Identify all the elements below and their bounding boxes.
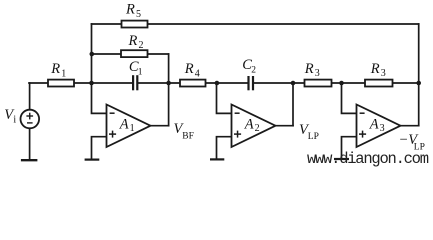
label R1 bbox=[50, 61, 66, 79]
svg-text:BF: BF bbox=[182, 132, 194, 142]
label A1 bbox=[119, 117, 135, 135]
node junction dots bbox=[89, 52, 421, 86]
svg-text:1: 1 bbox=[130, 123, 135, 134]
wire V_BF vertical (R2 right / A1 output node) bbox=[168, 54, 170, 126]
wire A2 inverting input branch bbox=[217, 83, 232, 113]
label C2 bbox=[242, 57, 256, 76]
svg-text:2: 2 bbox=[139, 40, 144, 51]
label R4 bbox=[184, 61, 200, 79]
wire main rail mid segment bbox=[138, 82, 247, 84]
label V_BF bbox=[174, 121, 194, 141]
svg-text:1: 1 bbox=[138, 68, 143, 78]
svg-text:1: 1 bbox=[61, 68, 66, 79]
node A3 inverting bbox=[339, 81, 344, 86]
resistor R4 bbox=[180, 80, 206, 87]
svg-text:3: 3 bbox=[381, 68, 386, 79]
wire A2 output bbox=[276, 125, 294, 127]
label V_LP bbox=[299, 122, 319, 142]
label R2 bbox=[128, 33, 144, 51]
wire right feedback vertical (A3 output node) bbox=[418, 24, 420, 126]
wire A2 noninverting input to ground bbox=[217, 137, 232, 159]
node R2 left junction bbox=[90, 52, 95, 57]
ground (A1) bbox=[85, 159, 100, 161]
wire A3 inverting input branch bbox=[342, 83, 357, 113]
svg-text:2: 2 bbox=[255, 123, 260, 134]
resistor R5 bbox=[122, 21, 148, 28]
svg-text:LP: LP bbox=[308, 132, 319, 142]
node A1 inverting (main rail) bbox=[89, 81, 94, 86]
svg-text:R: R bbox=[125, 2, 135, 18]
wire V_LP vertical (A2 output node) bbox=[292, 83, 294, 126]
op-amp A1 bbox=[107, 105, 151, 148]
node A2 inverting bbox=[215, 81, 220, 86]
voltage source Vi bbox=[21, 110, 40, 129]
node V_LP bbox=[291, 81, 296, 86]
svg-text:3: 3 bbox=[380, 123, 385, 134]
svg-text:R: R bbox=[184, 61, 194, 77]
wire node A vertical (A1 inverting input branch) bbox=[92, 24, 107, 113]
label C1 bbox=[129, 59, 143, 78]
svg-text:A: A bbox=[119, 117, 129, 133]
label R3 (first) bbox=[304, 61, 320, 79]
svg-text:R: R bbox=[128, 33, 138, 49]
op-amp A3 bbox=[357, 105, 401, 148]
wire R2 rail bbox=[92, 53, 169, 55]
svg-text:R: R bbox=[370, 61, 380, 77]
wire main rail left segment bbox=[29, 82, 132, 84]
capacitor C1 bbox=[133, 75, 137, 90]
label A3 bbox=[369, 117, 385, 135]
resistor R3 (second) bbox=[365, 80, 393, 87]
resistor R3 (first) bbox=[305, 80, 332, 87]
label A2 bbox=[244, 117, 260, 135]
wire Vi top lead bbox=[29, 83, 31, 110]
op-amp A2 bbox=[232, 105, 276, 148]
wire A3 output bbox=[401, 125, 419, 127]
ground (Vi source) bbox=[21, 159, 38, 161]
label R3 (second) bbox=[370, 61, 386, 79]
svg-text:A: A bbox=[244, 117, 254, 133]
wire A3 noninverting input to ground bbox=[342, 137, 357, 158]
wire R5 rail top bbox=[92, 23, 419, 25]
svg-text:A: A bbox=[369, 117, 379, 133]
node V_BF bbox=[166, 81, 171, 86]
wire Vi bottom lead bbox=[29, 128, 31, 158]
svg-text:R: R bbox=[50, 61, 60, 77]
svg-text:3: 3 bbox=[315, 68, 320, 79]
svg-text:R: R bbox=[304, 61, 314, 77]
resistor R1 bbox=[48, 80, 74, 87]
wire A1 output bbox=[151, 125, 169, 127]
svg-text:4: 4 bbox=[195, 68, 200, 79]
svg-text:www.diangon.com: www.diangon.com bbox=[307, 150, 429, 168]
svg-text:2: 2 bbox=[251, 66, 256, 76]
ground (A2) bbox=[210, 158, 224, 160]
wire main rail right segment bbox=[254, 82, 419, 84]
svg-text:5: 5 bbox=[136, 9, 141, 20]
wire A1 noninverting input to ground bbox=[92, 137, 107, 159]
label Vi bbox=[4, 107, 16, 125]
label -V_LP bbox=[399, 132, 425, 153]
label R5 bbox=[125, 2, 141, 20]
node A3 output / feedback bbox=[416, 81, 421, 86]
resistor R2 bbox=[121, 50, 148, 57]
svg-text:i: i bbox=[13, 115, 16, 126]
capacitor C2 bbox=[249, 76, 254, 90]
ground (A3) bbox=[334, 158, 349, 160]
